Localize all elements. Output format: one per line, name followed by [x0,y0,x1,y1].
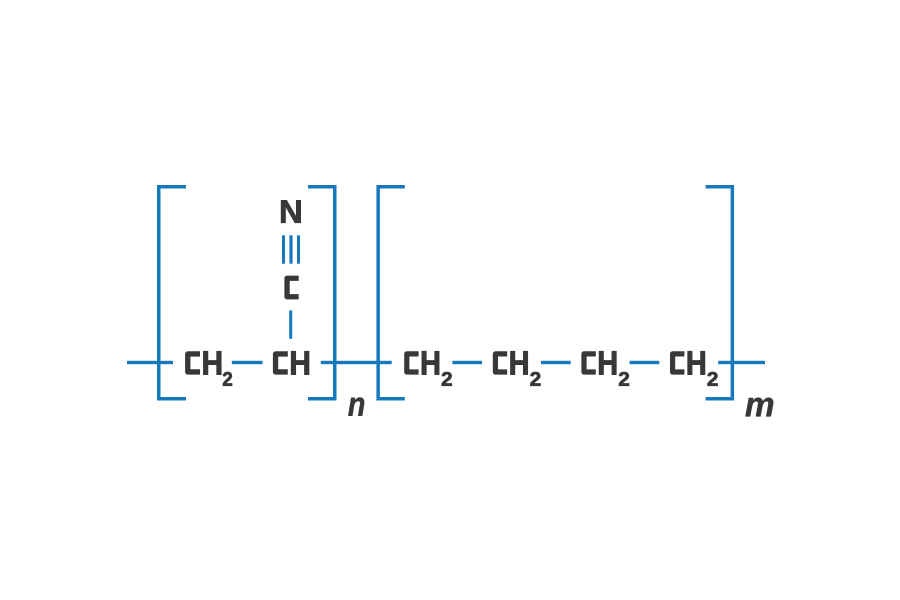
wire: right tail bond through bracket [718,361,765,364]
wire: bond CH2-CH2 #3 [630,361,660,364]
wire: triple bond C≡N, three parallel lines [282,235,300,263]
node CH2 butadiene #2: H glyph [511,351,528,374]
wire: bond CH2-CH2 #1 [452,361,482,364]
label m, repeat subscript [746,398,774,417]
node CH2 butadiene #4: H glyph [688,351,705,374]
subscript 2 of butadiene CH2 #1 [442,372,452,386]
node N, nitrile nitrogen [281,200,300,222]
node CH: C glyph [276,354,288,372]
subscript 2 of butadiene CH2 #3 [619,372,629,386]
subscript 2 of CH2 (n-unit) [223,372,232,386]
node CH2 butadiene #3: C glyph [584,354,596,372]
node CH2 butadiene #3: H glyph [599,351,616,374]
bracket open, butadiene m-unit [378,187,405,399]
wire: single bond CH to nitrile C [289,310,292,338]
subscript 2 of butadiene CH2 #4 [708,372,718,386]
node CH2: H glyph [204,351,222,374]
label n, repeat subscript [348,398,364,416]
bracket open, acrylonitrile n-unit [159,187,186,399]
wire: left tail bond through bracket [127,361,173,364]
subscript 2 of butadiene CH2 #2 [530,372,540,386]
node CH2 butadiene #2: C glyph [495,354,507,372]
wire: bond CH to butadiene block, crosses both brackets [321,361,392,364]
bracket close, acrylonitrile n-unit [308,187,335,399]
wire: bond CH2-CH [232,361,263,364]
node CH2: C glyph [188,354,200,372]
wire: bond CH2-CH2 #2 [541,361,571,364]
node CH: H glyph [291,351,309,374]
node C, nitrile carbon [287,278,299,297]
bracket close, butadiene m-unit [706,187,733,399]
node CH2 butadiene #1: C glyph [407,354,419,372]
node CH2 butadiene #1: H glyph [422,351,439,374]
node CH2 butadiene #4: C glyph [673,354,685,372]
